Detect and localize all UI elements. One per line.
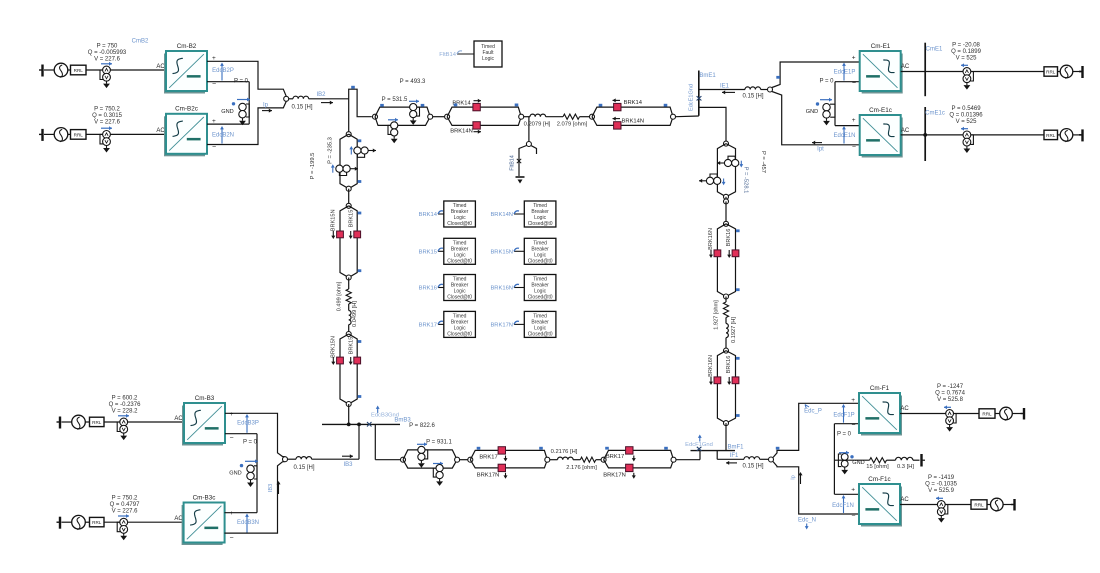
converter Cm-F1c xyxy=(861,487,902,527)
svg-text:P = 0: P = 0 xyxy=(243,440,258,446)
AC source (F1) xyxy=(1000,407,1013,420)
wire fault hook xyxy=(531,146,536,154)
wire xyxy=(85,521,89,523)
node xyxy=(724,294,729,299)
wire cable to bus F1 xyxy=(725,423,727,451)
wire xyxy=(725,201,727,223)
breaker BRK14 pos xyxy=(473,103,480,110)
black down arrow xyxy=(350,231,352,237)
timed breaker logic BRK16N xyxy=(514,287,524,289)
resistor 2.176 [ohm] xyxy=(580,457,596,462)
wire jog down xyxy=(716,451,718,460)
wire xyxy=(375,459,400,461)
blue arrow EdcB3Gnd xyxy=(377,408,379,413)
wire E1 minus xyxy=(835,81,860,83)
blue tick xyxy=(776,447,780,450)
timed fault logic box xyxy=(474,41,502,67)
svg-text:+: + xyxy=(851,487,855,494)
svg-text:Cm-B2c: Cm-B2c xyxy=(175,106,198,113)
svg-text:BRK16: BRK16 xyxy=(726,229,732,247)
svg-text:AC: AC xyxy=(156,128,165,134)
black down arrow xyxy=(332,357,334,363)
svg-text:Closed@t0: Closed@t0 xyxy=(528,221,553,227)
ground arrow B3 mid xyxy=(250,480,252,483)
multimeter M1 (B2) xyxy=(103,66,111,74)
node fault xyxy=(526,142,531,147)
blue current arrow xyxy=(118,415,129,417)
inductor 0.0499 [H] xyxy=(349,311,351,325)
black arrow xyxy=(474,100,482,102)
svg-text:BmF1: BmF1 xyxy=(728,444,745,450)
node xyxy=(468,457,473,462)
blue x mark F1 xyxy=(697,447,702,451)
ground arrow (B2 mid) xyxy=(242,118,244,121)
svg-text:RRL: RRL xyxy=(1046,133,1056,138)
breaker BRK17N neg2 xyxy=(626,464,633,471)
blue arrow EdcF1Gnd xyxy=(699,437,701,442)
AC source (B3) xyxy=(72,415,86,429)
svg-text:V = 525.8: V = 525.8 xyxy=(937,397,964,403)
busbar E1 xyxy=(924,43,926,96)
svg-text:IB3: IB3 xyxy=(268,484,274,492)
svg-text:Q = -0.1035: Q = -0.1035 xyxy=(925,481,958,487)
svg-text:BRK14: BRK14 xyxy=(624,100,643,106)
blue tick xyxy=(539,447,543,450)
source impedance RRL (F1) xyxy=(979,409,995,418)
breaker BRK16 xyxy=(732,250,739,257)
wire IE1 xyxy=(699,89,745,91)
black down arrow xyxy=(332,231,334,237)
svg-text:BRK15: BRK15 xyxy=(349,337,355,355)
wire hexagon BRK14-1 xyxy=(447,107,521,125)
node xyxy=(346,402,351,407)
black arrow xyxy=(717,162,725,164)
wire xyxy=(460,459,468,461)
blue tick xyxy=(380,104,384,107)
blue arrow xyxy=(417,443,427,445)
wire hexagon BRK17-2 xyxy=(604,450,674,468)
breaker BRK16N xyxy=(714,377,721,384)
breaker BRK17N neg xyxy=(498,464,505,471)
svg-text:Q = -0.005993: Q = -0.005993 xyxy=(88,50,127,56)
voltage arrow EdcB3N xyxy=(246,516,248,533)
svg-text:−: − xyxy=(230,535,234,542)
svg-text:Q = 0.7674: Q = 0.7674 xyxy=(935,391,966,397)
breaker BRK14N neg xyxy=(473,122,480,129)
wire F1 minus pole xyxy=(773,462,859,515)
node xyxy=(428,114,433,119)
svg-text:P = -235.3: P = -235.3 xyxy=(328,137,334,164)
inductor 0.15 [H] (F1) xyxy=(744,457,760,460)
wire to F1 bus xyxy=(676,459,700,461)
AC source (B3c) xyxy=(72,515,86,529)
svg-text:Cm-E1: Cm-E1 xyxy=(871,43,891,50)
node xyxy=(671,457,676,462)
fault switch x xyxy=(517,159,521,163)
blue tick xyxy=(776,76,780,79)
svg-text:0.2176 [H]: 0.2176 [H] xyxy=(551,449,578,455)
wire B3 minus xyxy=(225,433,257,435)
blue tick xyxy=(358,212,362,215)
AC source (E1) xyxy=(1060,65,1073,78)
resistor 2.079 [ohm] xyxy=(563,114,580,119)
svg-text:RRL: RRL xyxy=(974,503,984,508)
svg-text:GND: GND xyxy=(221,109,233,115)
wire jog up xyxy=(699,451,701,460)
wire xyxy=(62,521,72,523)
blue tick xyxy=(664,104,668,107)
wire B3 minus pole xyxy=(225,462,286,534)
black up arrow F xyxy=(800,475,802,485)
ground (F1 gnd chain) xyxy=(920,454,922,467)
node xyxy=(346,332,351,337)
wire xyxy=(86,133,166,135)
multimeter gnd (B3) xyxy=(247,465,254,472)
svg-text:0.0499 [H]: 0.0499 [H] xyxy=(352,301,358,327)
wire xyxy=(44,133,54,135)
junction dot xyxy=(347,423,351,427)
wire IB3 xyxy=(312,458,359,460)
timed breaker logic BRK15 xyxy=(438,250,444,252)
node xyxy=(724,348,729,353)
blue current arrow xyxy=(101,63,112,65)
timed breaker logic BRK15N xyxy=(514,250,524,252)
wire hexagon BRK15-1 xyxy=(340,206,357,278)
source impedance RRL (F1c) xyxy=(971,500,987,509)
svg-text:BRK14N: BRK14N xyxy=(622,118,645,124)
svg-text:V = 227.6: V = 227.6 xyxy=(94,120,121,126)
wire gnd link F1 xyxy=(833,424,835,495)
resistor 0.499 [ohm] xyxy=(346,289,351,304)
converter Cm-B3c xyxy=(182,505,223,545)
wire E1c plus xyxy=(835,125,860,127)
wire jog2 xyxy=(374,424,376,459)
svg-text:RRL: RRL xyxy=(74,68,84,73)
black arrow IF1 xyxy=(726,462,737,464)
ground arrow E1 mid xyxy=(826,118,828,121)
svg-text:P = 750: P = 750 xyxy=(97,44,118,50)
black down arrow xyxy=(710,377,712,383)
ground fault xyxy=(516,176,525,178)
bus BmF1 xyxy=(691,450,736,452)
wire IF1 xyxy=(717,458,744,460)
svg-text:V = 525: V = 525 xyxy=(956,56,978,62)
multimeter upper (531.5) xyxy=(410,104,417,111)
svg-text:Edc_P: Edc_P xyxy=(804,409,822,415)
multimeter (B3) xyxy=(120,418,128,426)
multimeter (F1 ac) xyxy=(946,410,954,418)
svg-text:RRL: RRL xyxy=(982,412,992,417)
wire B3 plus pole xyxy=(225,413,285,457)
blue tick xyxy=(736,288,740,291)
svg-text:Cm-E1c: Cm-E1c xyxy=(869,107,892,114)
wire xyxy=(1073,71,1081,73)
AC source Es2 (B2c) xyxy=(54,128,68,142)
svg-text:IE1: IE1 xyxy=(720,83,730,89)
wire IB2 xyxy=(309,98,349,100)
node xyxy=(545,457,550,462)
svg-text:2.079 [ohm]: 2.079 [ohm] xyxy=(557,122,588,128)
blue arrow down xyxy=(740,161,742,165)
node xyxy=(724,421,729,426)
svg-text:P = 750.2: P = 750.2 xyxy=(112,496,138,502)
inductor 0.15 [H] (B2) xyxy=(293,96,309,99)
svg-text:0.15 [H]: 0.15 [H] xyxy=(742,94,763,100)
ammeter pair left branch (E1) xyxy=(706,177,713,184)
svg-text:BmE1: BmE1 xyxy=(699,73,716,79)
blue x mark xyxy=(697,96,702,100)
svg-text:P = -199.5: P = -199.5 xyxy=(310,153,316,180)
wire E1 bus to cable xyxy=(699,107,726,141)
node xyxy=(346,186,351,191)
blue tick xyxy=(454,104,458,107)
svg-text:P = 750.2: P = 750.2 xyxy=(94,107,120,113)
node J-E1 xyxy=(768,87,773,92)
voltage arrow EdcF1N xyxy=(843,498,845,514)
svg-text:BRK15N: BRK15N xyxy=(490,249,513,255)
svg-text:Q = 0.4797: Q = 0.4797 xyxy=(110,502,141,508)
wire cable top link xyxy=(349,89,372,134)
multimeter (F1c ac) xyxy=(937,501,945,509)
ground arrow xyxy=(412,118,414,121)
breaker BRK15N xyxy=(337,357,344,364)
node xyxy=(601,457,606,462)
blue current arrow xyxy=(101,127,112,129)
node J-B2 xyxy=(284,96,289,101)
black arrow IB2 xyxy=(321,102,333,104)
svg-text:AC: AC xyxy=(900,497,909,503)
svg-text:Q = -0.2376: Q = -0.2376 xyxy=(109,402,142,408)
wire xyxy=(913,459,920,461)
black up arrow xyxy=(278,484,280,495)
wire F1c plus xyxy=(834,493,859,495)
svg-text:−: − xyxy=(852,80,856,87)
blue arrow xyxy=(409,100,419,102)
blue tick xyxy=(515,104,519,107)
svg-text:BRK15: BRK15 xyxy=(419,249,437,255)
ground arrow xyxy=(393,136,395,139)
ground (E1 ac) xyxy=(1081,66,1083,78)
wire B2c plus xyxy=(207,123,249,125)
AC source Es1 (B2) xyxy=(54,63,68,77)
breaker BRK16 xyxy=(732,377,739,384)
breaker BRK14N neg2 xyxy=(614,122,621,129)
svg-text:EdcE1P: EdcE1P xyxy=(834,70,856,76)
wire xyxy=(68,69,71,71)
timed breaker logic BRK17N xyxy=(514,323,524,325)
source impedance RRL (B3) xyxy=(90,417,105,426)
blue dot F1 xyxy=(850,455,853,458)
wire xyxy=(44,69,54,71)
black down arrow xyxy=(728,250,730,256)
junction dot xyxy=(357,423,361,427)
svg-text:Closed@t0: Closed@t0 xyxy=(528,295,553,301)
wire E1 minus pole xyxy=(772,92,860,145)
ground (F1 ac) xyxy=(1023,408,1025,420)
blue tick xyxy=(736,229,740,232)
wire hexagon P531 xyxy=(375,107,430,125)
svg-text:BRK16: BRK16 xyxy=(726,356,732,374)
breaker BRK15 xyxy=(354,231,361,238)
svg-text:P = 0: P = 0 xyxy=(837,431,852,437)
wire xyxy=(995,413,1000,415)
wire F1 plus pole xyxy=(773,403,859,457)
node J-931-left xyxy=(401,457,406,462)
wire xyxy=(86,69,166,71)
blue mark p xyxy=(805,405,809,408)
svg-text:AC: AC xyxy=(174,416,183,422)
svg-text:EdcE1Gnd: EdcE1Gnd xyxy=(689,84,695,111)
black arrow xyxy=(699,180,707,182)
svg-text:+: + xyxy=(852,55,856,62)
wire xyxy=(288,458,296,460)
ground G4 (B3 source 2) xyxy=(59,517,61,529)
svg-text:GND: GND xyxy=(852,460,864,466)
svg-text:P = -457: P = -457 xyxy=(760,151,766,173)
blue tick xyxy=(358,269,362,272)
svg-text:Cm-F1: Cm-F1 xyxy=(870,385,890,392)
blue arrow xyxy=(961,128,968,130)
black down arrow xyxy=(350,357,352,363)
svg-text:Closed@t0: Closed@t0 xyxy=(447,295,472,301)
ground arrow xyxy=(420,461,422,464)
inductor 0.2079 [H] xyxy=(530,114,546,117)
breaker BRK15 xyxy=(354,357,361,364)
wire E1 plus pole xyxy=(772,62,860,88)
ground (F1c ac) xyxy=(1013,499,1015,511)
blue tick xyxy=(599,104,603,107)
source impedance RRL (E1) xyxy=(1044,67,1058,76)
voltage arrow EdcE1N xyxy=(843,129,845,144)
breaker BRK17 pos xyxy=(498,447,505,454)
node xyxy=(445,114,450,119)
svg-text:Cm-B2: Cm-B2 xyxy=(177,43,197,50)
svg-text:+: + xyxy=(852,117,856,124)
blue arrow xyxy=(820,99,832,101)
node xyxy=(724,221,729,226)
svg-text:+: + xyxy=(230,411,234,418)
timed breaker logic BRK16 xyxy=(438,287,444,289)
svg-text:0.3 [H]: 0.3 [H] xyxy=(897,464,914,470)
svg-text:RRL: RRL xyxy=(92,520,102,525)
svg-text:AC: AC xyxy=(901,64,910,70)
blue arrow up xyxy=(350,149,352,155)
svg-text:BRK17: BRK17 xyxy=(606,454,624,460)
ground (E1c ac) xyxy=(1081,129,1083,141)
svg-text:−: − xyxy=(852,144,856,151)
ground G3 (B3 source 1) xyxy=(59,417,61,429)
svg-text:Q = 0.01396: Q = 0.01396 xyxy=(949,112,983,118)
svg-text:IB3: IB3 xyxy=(343,462,353,468)
node xyxy=(724,194,729,199)
timed breaker logic BRK17 xyxy=(438,323,444,325)
voltage arrow EdcB3P xyxy=(246,417,248,433)
inductor 0.1927 [H] xyxy=(726,324,728,338)
breaker BRK16N xyxy=(714,250,721,257)
multimeter upper (931) xyxy=(418,446,425,453)
blue dot xyxy=(232,102,235,105)
svg-text:BRK17N: BRK17N xyxy=(490,322,513,328)
breaker BRK15N xyxy=(337,231,344,238)
svg-text:Logic: Logic xyxy=(482,56,494,62)
blue x mark B3 xyxy=(367,422,372,427)
wire xyxy=(925,71,1044,73)
inductor 0.2176 [H] xyxy=(558,457,574,460)
busbar E1c xyxy=(924,107,926,161)
svg-text:Ipt: Ipt xyxy=(817,147,824,153)
blue current arrow xyxy=(118,515,129,517)
blue tick xyxy=(351,86,355,89)
converter Cm-F1 xyxy=(861,396,902,436)
wire gnd link xyxy=(248,82,250,124)
wire gnd row xyxy=(834,459,869,461)
svg-text:P = -528.1: P = -528.1 xyxy=(743,167,749,194)
svg-text:AC: AC xyxy=(901,128,910,134)
wire xyxy=(1012,413,1022,415)
svg-text:P = 822.6: P = 822.6 xyxy=(409,423,435,429)
wire xyxy=(546,116,563,118)
svg-text:EdcB2P: EdcB2P xyxy=(212,68,234,74)
blue tick xyxy=(358,180,362,183)
svg-text:BRK14N: BRK14N xyxy=(450,129,473,135)
multimeter gnd (E1) xyxy=(823,104,830,111)
resistor 15 [ohm] xyxy=(870,458,887,463)
blue dot xyxy=(240,464,243,467)
svg-text:BRK16N: BRK16N xyxy=(490,286,513,292)
svg-text:−: − xyxy=(851,422,855,429)
svg-text:0.15 [H]: 0.15 [H] xyxy=(293,465,314,471)
wire xyxy=(85,421,89,423)
multimeter (E1c ac) xyxy=(963,131,971,139)
wire xyxy=(760,458,769,460)
multimeter lower (531.5) xyxy=(391,122,398,129)
wire xyxy=(1058,134,1060,136)
blue tick xyxy=(736,414,740,417)
black arrow xyxy=(262,110,272,112)
svg-text:RRL: RRL xyxy=(74,132,84,137)
svg-text:EdcE1N: EdcE1N xyxy=(833,133,855,139)
blue tick xyxy=(664,447,668,450)
wire xyxy=(725,197,727,202)
blue arrow 2 xyxy=(433,463,443,465)
resistor 1.927 [ohm] xyxy=(723,302,728,318)
svg-text:−: − xyxy=(230,435,234,442)
multimeter gnd (B2) xyxy=(239,103,246,110)
svg-text:Q = 0.1899: Q = 0.1899 xyxy=(951,49,982,55)
wire xyxy=(524,116,530,118)
converter Cm-B2c xyxy=(164,116,205,156)
node xyxy=(590,114,595,119)
svg-text:CmE1: CmE1 xyxy=(926,47,943,53)
wire hexagon BRK15-2 xyxy=(340,334,357,404)
junction dot xyxy=(923,133,927,137)
svg-text:Cm-B3c: Cm-B3c xyxy=(193,494,216,501)
svg-text:BRK15N: BRK15N xyxy=(331,209,337,231)
ammeter pair right branch (E1) xyxy=(724,159,731,166)
source impedance RRL (B2) xyxy=(71,65,87,75)
ground G1 (B2 ac source 1) xyxy=(41,65,43,77)
blue tick xyxy=(605,447,609,450)
multimeter lower (931) xyxy=(436,465,443,472)
blue arrow xyxy=(237,99,250,101)
svg-text:CmB2: CmB2 xyxy=(132,39,149,45)
inductor 0.15 [H] (E1) xyxy=(745,87,761,90)
svg-text:V = 227.6: V = 227.6 xyxy=(94,57,121,63)
source impedance RRL (B2c) xyxy=(71,130,87,140)
black down arrow b17n xyxy=(505,473,507,477)
wire fault branch xyxy=(519,146,527,177)
svg-text:P = 531.5: P = 531.5 xyxy=(382,97,408,103)
